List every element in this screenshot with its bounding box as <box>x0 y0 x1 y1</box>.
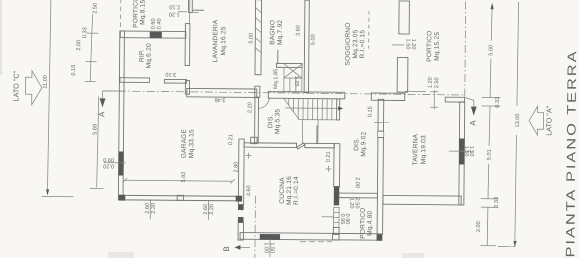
cucina door jamb dark upper <box>238 205 244 211</box>
wall V7: soggiorno/portico wall upper <box>399 1 410 34</box>
edge smudge bottom a <box>108 252 134 258</box>
svg-text:Mq.1.85: Mq.1.85 <box>273 69 279 89</box>
svg-text:R.I.=0.15: R.I.=0.15 <box>359 30 366 59</box>
svg-text:13.00: 13.00 <box>515 113 521 127</box>
dimension line 5.69 <box>97 96 99 187</box>
window W6 dark in cucina right wall <box>334 186 340 205</box>
shaft cross diagonal 2 <box>284 64 302 78</box>
stair slanted edge <box>284 98 300 119</box>
svg-text:5.00: 5.00 <box>249 33 255 44</box>
svg-text:1.00: 1.00 <box>263 242 269 253</box>
window in H1 wall <box>150 32 162 39</box>
arrowhead bottom of 11.00 <box>46 189 49 195</box>
svg-text:5.69: 5.69 <box>92 124 98 135</box>
window W4 dark in V8 <box>459 138 465 164</box>
tick 96 <box>482 96 500 98</box>
stair shaft top cap <box>277 63 303 67</box>
open post middle on H7 <box>177 195 183 200</box>
window W6b lined part <box>334 207 340 227</box>
wall stub below V4 <box>255 86 260 97</box>
svg-text:A: A <box>97 111 106 117</box>
stair right edge wall <box>337 99 340 120</box>
svg-text:Mq.16.25: Mq.16.25 <box>220 26 227 55</box>
svg-text:3.60: 3.60 <box>296 25 302 36</box>
pillar at portico edge <box>188 0 192 12</box>
wall stub below W6 <box>333 227 339 234</box>
svg-text:0.90: 0.90 <box>344 214 350 225</box>
svg-text:1.50: 1.50 <box>468 146 474 157</box>
big arrow LATO A pointing left <box>529 106 544 135</box>
stair direction line <box>285 107 340 109</box>
dark post at portico bottom right <box>377 234 383 241</box>
wall H7: garage bottom wall <box>119 195 240 201</box>
wall V11: cucina right wall <box>334 144 340 187</box>
section line A-A horizontal dash-dot <box>103 91 465 95</box>
svg-text:1.20: 1.20 <box>410 39 416 50</box>
door arc hall to dis <box>258 97 269 108</box>
tick at chain <box>87 32 98 34</box>
svg-text:2.20: 2.20 <box>209 204 215 215</box>
small cross tick garage <box>246 155 252 157</box>
wall V2: RIP right wall <box>185 24 190 66</box>
svg-text:BAGNO: BAGNO <box>269 20 276 45</box>
svg-text:0.33: 0.33 <box>494 197 500 208</box>
stair shaft box <box>284 67 302 91</box>
section marker A right <box>465 98 474 107</box>
wall V3 lower part <box>238 223 243 241</box>
garage window dim lines <box>149 200 151 219</box>
projection dashed line above portico <box>368 11 370 49</box>
tick line taverna opening <box>433 90 435 109</box>
svg-text:0.21: 0.21 <box>326 151 332 162</box>
svg-text:0.21: 0.21 <box>228 134 234 145</box>
svg-text:0.33: 0.33 <box>495 97 501 108</box>
tie line through W6 <box>322 216 334 218</box>
tick 205 <box>481 206 498 208</box>
big arrow LATO C pointing right <box>25 71 42 105</box>
wall V7 lower <box>397 57 408 92</box>
wall H9b: portico 4.80 bottom <box>333 233 381 240</box>
svg-text:11.00: 11.00 <box>43 75 49 89</box>
bottom tick of 5.69 <box>90 187 103 189</box>
wall V5: bagno right wall <box>304 0 309 93</box>
svg-text:2.50: 2.50 <box>92 3 98 14</box>
tick 104 <box>482 105 500 107</box>
stair shaft stub above <box>277 50 279 63</box>
shaft divider <box>284 77 302 79</box>
dimension chain 5.00/0.33/5.01/0.33/2.00 <box>490 8 493 41</box>
wall H9: cucina bottom wall <box>240 233 339 240</box>
shaft tread 2 <box>295 78 297 91</box>
tick below pillar <box>189 11 198 13</box>
svg-text:1.20: 1.20 <box>348 198 354 209</box>
svg-text:2.80: 2.80 <box>233 162 239 173</box>
section line A-A vertical dash-dot (right) <box>464 2 467 98</box>
svg-text:5.92: 5.92 <box>181 172 187 183</box>
wall H8: taverna bottom wall <box>383 195 461 204</box>
faint line below portico <box>300 241 332 243</box>
svg-text:1.50: 1.50 <box>404 39 410 50</box>
window in V1 wall <box>118 152 123 176</box>
top line of lavanderia <box>192 9 204 11</box>
lower flight wall b <box>317 120 319 144</box>
edge smudge bottom b <box>402 253 424 258</box>
tie line through W4 <box>449 150 472 152</box>
svg-text:A: A <box>468 120 477 126</box>
section marker B bottom <box>239 246 250 248</box>
svg-text:2.20: 2.20 <box>247 102 253 113</box>
wall V8: taverna right wall <box>459 102 465 205</box>
svg-text:1.25: 1.25 <box>293 76 299 87</box>
svg-text:TAVERNA: TAVERNA <box>412 133 419 165</box>
svg-text:Mq.4.80: Mq.4.80 <box>367 210 374 235</box>
section line B-B vertical dash-dot (bottom) <box>254 196 257 258</box>
wall V11b short <box>316 125 318 143</box>
svg-text:4.60: 4.60 <box>246 185 252 196</box>
svg-text:Mq.8.15: Mq.8.15 <box>139 0 146 25</box>
svg-text:LAVANDERIA: LAVANDERIA <box>212 19 219 62</box>
wall H5: taverna top corner wall <box>445 97 464 102</box>
wall H6b <box>305 143 335 148</box>
door panel in H6 <box>297 143 305 149</box>
svg-text:2.10: 2.10 <box>169 3 180 9</box>
bottom tie of 13.00 <box>498 246 515 248</box>
svg-text:Mq.7.92: Mq.7.92 <box>277 20 284 45</box>
wall V4: bagno left wall with window <box>255 0 262 75</box>
svg-text:B: B <box>222 246 231 251</box>
svg-text:LATO "A": LATO "A" <box>544 105 553 136</box>
wall H6a: stairs/cucina wall <box>244 143 296 148</box>
svg-text:Mq.9.02: Mq.9.02 <box>360 131 367 156</box>
svg-text:0.20: 0.20 <box>103 163 114 169</box>
shaft tread 1 <box>289 78 291 91</box>
svg-text:R.I.=0.14: R.I.=0.14 <box>293 176 300 205</box>
door symbol in V6 <box>378 131 384 137</box>
svg-text:PORTICO: PORTICO <box>426 31 433 62</box>
svg-text:Mq.15.25: Mq.15.25 <box>434 32 441 61</box>
svg-text:1.20: 1.20 <box>428 77 434 88</box>
svg-text:SOGGIORNO: SOGGIORNO <box>345 22 352 65</box>
cucina door jamb dark lower <box>238 217 244 223</box>
dimension chain left top <box>91 14 94 33</box>
wall H4: wall right of stairs <box>371 93 405 100</box>
svg-text:Mq.5.35: Mq.5.35 <box>274 109 281 134</box>
arrowhead bottom 13.00 <box>513 241 516 247</box>
window hatches in V4 <box>256 8 262 13</box>
wall V3: garage right / cucina left <box>238 139 244 205</box>
dimension 5.92 garage <box>125 179 233 182</box>
wall V1: garage left outer wall <box>118 31 124 200</box>
svg-text:Mq.19.03: Mq.19.03 <box>420 135 427 164</box>
tick in V7 gap <box>392 44 404 46</box>
svg-text:2.00: 2.00 <box>76 40 82 51</box>
window W5 dark in cucina bottom <box>260 234 280 240</box>
stair treads lower flight <box>289 98 332 119</box>
shaft cross diagonal 1 <box>284 64 302 78</box>
svg-text:5.00: 5.00 <box>488 45 494 56</box>
svg-text:1.50: 1.50 <box>269 242 275 253</box>
wall H3a: lavanderia bottom wall <box>187 88 257 97</box>
svg-text:PIANTA PIANO TERRA: PIANTA PIANO TERRA <box>563 49 579 257</box>
arrowhead top of chain <box>491 3 494 10</box>
svg-text:0.40: 0.40 <box>157 18 163 29</box>
tick bottom 244 <box>480 245 495 247</box>
wall V4b: thin wall below band (DIS left) <box>255 98 259 143</box>
svg-text:2.50: 2.50 <box>434 77 440 88</box>
lower flight wall a <box>301 120 303 144</box>
svg-text:GARAGE: GARAGE <box>181 128 188 158</box>
svg-text:Mq.6.20: Mq.6.20 <box>146 43 153 68</box>
svg-text:LATO "C": LATO "C" <box>11 70 20 101</box>
svg-text:5.01: 5.01 <box>487 149 493 160</box>
dashed portico edge above RIP <box>120 0 122 31</box>
svg-text:2.20: 2.20 <box>151 203 157 214</box>
svg-text:2.00: 2.00 <box>354 177 360 188</box>
wall V6: dis/taverna wall <box>378 99 384 131</box>
dark post left on H7 <box>119 195 126 201</box>
wall H1: RIP top wall <box>120 31 186 38</box>
cucina window dim <box>269 240 271 257</box>
wall H3b: hall wall right of door <box>268 92 345 99</box>
section marker A left <box>103 91 121 99</box>
dark post right on H7 <box>236 196 242 202</box>
svg-text:5.00: 5.00 <box>311 34 317 45</box>
tick at chain bottom <box>85 80 95 82</box>
svg-text:0.15: 0.15 <box>71 65 77 76</box>
notch at V3 top <box>251 137 257 143</box>
svg-text:0.33: 0.33 <box>82 27 88 38</box>
svg-text:3.10: 3.10 <box>165 71 176 77</box>
svg-text:0.15: 0.15 <box>368 106 374 117</box>
stair bottom edge <box>299 119 339 121</box>
wall H2a: RIP bottom wall left part <box>120 78 150 83</box>
tick at chain <box>86 61 97 63</box>
svg-text:3.46: 3.46 <box>215 96 226 102</box>
wall V6 lower <box>377 138 383 235</box>
svg-text:2.00: 2.00 <box>476 221 482 232</box>
dimension chain right 13.00 <box>517 2 519 106</box>
bottom bar of 11.00 <box>42 195 73 197</box>
stair direction arrowhead <box>338 106 343 110</box>
wall H8b: portico 4.80 top wall <box>339 193 378 198</box>
edge artifact left <box>0 0 2 75</box>
tick 197 <box>481 198 498 200</box>
svg-text:Mq.33.15: Mq.33.15 <box>188 129 195 158</box>
wall H2b: RIP bottom wall right part <box>164 79 186 83</box>
svg-text:2.50: 2.50 <box>354 198 360 209</box>
tick 0.21 cucina <box>326 168 331 170</box>
dimension line 11.00 <box>47 0 51 194</box>
